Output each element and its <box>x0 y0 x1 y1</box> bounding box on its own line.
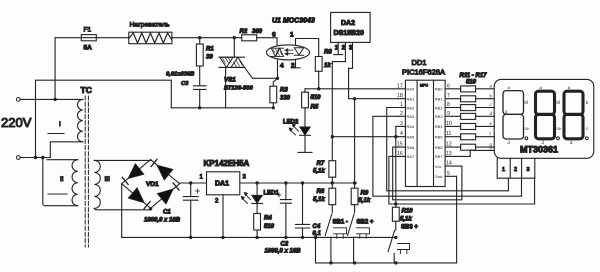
wire top main <box>55 37 277 39</box>
led triangle <box>294 48 303 55</box>
svg-text:II: II <box>60 176 64 183</box>
display pin cells <box>497 158 535 178</box>
fuse F1 <box>81 27 96 52</box>
wire RA6 to Vcc link <box>393 147 462 200</box>
svg-text:C1: C1 <box>163 210 171 216</box>
node MCLR junction <box>394 135 397 138</box>
ground bar pin2 <box>291 67 300 69</box>
svg-text:RB1: RB1 <box>435 97 444 102</box>
svg-text:R10: R10 <box>402 209 414 215</box>
wire terminal2 <box>20 157 50 159</box>
wire RA4 elbow <box>396 126 399 136</box>
svg-text:f: f <box>490 131 492 136</box>
svg-text:5,1k: 5,1k <box>313 197 325 203</box>
wires resistors to display <box>476 89 495 147</box>
diode top-right <box>157 165 173 180</box>
svg-text:220V: 220V <box>1 115 32 130</box>
node C4 bottom <box>301 236 304 239</box>
svg-text:a: a <box>508 85 511 90</box>
resistor R3 <box>270 78 291 108</box>
svg-text:RB7: RB7 <box>435 154 444 159</box>
PIC right pin numbers <box>446 83 452 177</box>
wire h row <box>470 150 494 156</box>
svg-text:2: 2 <box>215 199 219 205</box>
svg-text:MPU: MPU <box>420 84 428 88</box>
capacitor C1 <box>183 183 199 237</box>
svg-text:R4: R4 <box>264 216 272 222</box>
svg-text:ce: ce <box>557 126 562 131</box>
svg-text:2: 2 <box>291 63 295 70</box>
svg-text:F1: F1 <box>84 27 92 34</box>
svg-text:d: d <box>570 140 573 145</box>
triac VS1 <box>219 57 277 108</box>
node SB3 bus <box>394 261 397 264</box>
svg-text:I: I <box>59 121 61 128</box>
svg-text:0,1: 0,1 <box>313 231 322 237</box>
svg-text:b: b <box>586 100 589 105</box>
svg-text:11: 11 <box>446 131 451 137</box>
svg-text:RB2: RB2 <box>435 105 444 110</box>
node bus link <box>314 236 317 239</box>
svg-text:MT30361: MT30361 <box>520 145 558 155</box>
svg-text:TC: TC <box>81 85 92 95</box>
svg-text:1k: 1k <box>324 63 331 69</box>
svg-text:VD1: VD1 <box>146 181 159 188</box>
svg-text:330: 330 <box>280 96 291 102</box>
svg-text:БТ136-500: БТ136-500 <box>224 86 253 92</box>
svg-text:5: 5 <box>447 171 450 177</box>
wire RA1 row <box>349 68 399 98</box>
svg-text:9: 9 <box>447 111 450 117</box>
wire opto pin1 <box>296 39 319 57</box>
node riser top <box>353 97 356 100</box>
resistors R11-R17 <box>460 73 488 150</box>
winding III <box>94 160 110 208</box>
wire RA7 to display pin3 <box>389 156 535 204</box>
capacitor C4 <box>296 183 322 237</box>
svg-text:h: h <box>490 145 493 150</box>
wire opto pin4 <box>277 60 279 79</box>
wire RA0 row <box>305 88 398 90</box>
svg-text:5A: 5A <box>84 45 93 52</box>
svg-text:R7: R7 <box>317 161 325 167</box>
capacitor C3 <box>166 72 206 108</box>
svg-text:SB3 +: SB3 + <box>401 225 418 231</box>
svg-text:RA2: RA2 <box>407 105 416 110</box>
resistor R2 <box>240 29 263 41</box>
node C1 top <box>189 181 192 184</box>
svg-text:bf: bf <box>557 100 561 105</box>
resistor R4 <box>254 214 275 238</box>
node DA1 gnd <box>221 236 224 239</box>
svg-text:C2: C2 <box>281 242 289 248</box>
button SB2 <box>348 214 374 263</box>
node R6 bottom <box>317 87 320 90</box>
svg-text:DD1: DD1 <box>412 58 427 67</box>
svg-text:KP142EH5A: KP142EH5A <box>204 159 250 168</box>
resistor R6 <box>315 50 332 89</box>
digit 2 <box>536 85 562 145</box>
svg-text:d: d <box>490 111 493 116</box>
svg-text:R9: R9 <box>361 191 369 197</box>
sensor DA2 DS18B20 <box>331 12 371 68</box>
svg-text:3: 3 <box>400 121 403 127</box>
svg-text:C3: C3 <box>181 81 189 87</box>
svg-text:RB6: RB6 <box>435 145 444 150</box>
svg-text:R2: R2 <box>240 29 248 35</box>
svg-text:1: 1 <box>290 32 294 39</box>
PIC right pin stubs <box>445 89 470 177</box>
svg-text:c: c <box>586 126 588 131</box>
LED1 <box>241 183 280 214</box>
button SB1 <box>325 214 348 263</box>
winding II top spare lead <box>47 159 78 161</box>
wire MCLR to R10 <box>395 137 397 204</box>
svg-text:a: a <box>490 84 493 89</box>
digit 1 <box>503 85 530 145</box>
svg-text:RA3: RA3 <box>407 114 416 119</box>
resistor R7 <box>313 161 336 183</box>
node winding II neutral <box>41 156 44 159</box>
svg-text:RB3: RB3 <box>435 114 444 119</box>
wire +5 riser <box>354 99 356 183</box>
regulator DA1 <box>200 159 250 237</box>
svg-text:2: 2 <box>514 167 517 173</box>
resistor R1 <box>196 38 214 85</box>
wire RA3 to display pin2 <box>373 116 522 196</box>
svg-text:6: 6 <box>272 32 276 39</box>
digit 3 <box>564 85 589 145</box>
svg-text:R1: R1 <box>206 47 214 53</box>
svg-text:R11 - R17: R11 - R17 <box>460 73 488 79</box>
svg-text:17: 17 <box>397 83 403 89</box>
svg-text:RA1: RA1 <box>407 97 416 102</box>
wire RA2 to display pin1 <box>387 108 509 191</box>
node C2 bottom <box>284 236 287 239</box>
resistor R9 <box>351 183 371 213</box>
svg-text:RA5: RA5 <box>407 135 416 140</box>
MCU DD1 PIC16F628A <box>402 58 445 187</box>
winding II tap stub <box>48 193 67 195</box>
wire Gnd pin5 down <box>456 176 458 263</box>
svg-text:1: 1 <box>200 175 204 181</box>
node junction terminal1/primary <box>53 98 56 101</box>
wire DS pin3 jog <box>349 67 353 69</box>
node R9 top rail <box>353 181 356 184</box>
node C2 top <box>284 181 287 184</box>
bridge VD1 <box>122 159 180 208</box>
svg-text:12: 12 <box>446 142 452 148</box>
resistor R10 <box>392 204 413 230</box>
svg-text:360: 360 <box>252 29 263 35</box>
resistor R5 <box>302 89 322 111</box>
svg-text:5,1k: 5,1k <box>359 198 371 204</box>
winding I tap stub <box>48 133 64 135</box>
svg-text:39: 39 <box>206 55 213 61</box>
resistor R8 <box>313 183 336 213</box>
svg-text:b: b <box>490 93 493 98</box>
wire DQ junction to RA5 <box>332 136 398 138</box>
wire snubber bottom <box>171 107 273 109</box>
ground bus main <box>122 236 396 238</box>
svg-text:RA0: RA0 <box>407 87 416 92</box>
svg-text:510: 510 <box>466 80 477 86</box>
node triac top <box>233 36 236 39</box>
PIC RA labels <box>407 87 416 160</box>
svg-text:510: 510 <box>264 224 275 230</box>
node junction terminal2/snubber return <box>34 156 37 159</box>
node SB1 bus <box>329 261 332 264</box>
svg-text:1: 1 <box>400 102 403 108</box>
wire opto pin6 <box>276 38 278 46</box>
svg-text:DA2: DA2 <box>341 20 355 27</box>
LED2 <box>283 108 310 153</box>
wire winding III bottom to bridge bottom <box>94 208 150 210</box>
svg-text:1000,0 х 16В: 1000,0 х 16В <box>265 249 302 255</box>
svg-text:c: c <box>490 102 492 107</box>
svg-text:LED1: LED1 <box>264 191 280 197</box>
svg-text:3: 3 <box>243 175 247 181</box>
svg-text:1: 1 <box>502 167 505 173</box>
svg-text:VS1: VS1 <box>224 77 236 84</box>
svg-text:R6: R6 <box>324 50 332 56</box>
svg-text:d: d <box>508 140 511 145</box>
wire bridge plus to DA1 <box>180 182 207 184</box>
node DQ to PIC <box>331 135 334 138</box>
svg-text:10: 10 <box>446 121 452 127</box>
PIC left pin numbers <box>397 83 403 157</box>
svg-text:Vcc: Vcc <box>435 164 442 169</box>
svg-text:RA7: RA7 <box>407 154 416 159</box>
node C3 bottom <box>198 106 201 109</box>
svg-text:8: 8 <box>447 102 450 108</box>
svg-text:R5: R5 <box>311 105 319 111</box>
svg-text:R8: R8 <box>317 189 325 195</box>
heater element <box>129 22 172 44</box>
node gate/R3 <box>276 77 279 80</box>
display MT30361 <box>494 79 594 158</box>
svg-text:13: 13 <box>446 151 452 157</box>
svg-text:1000,0 х 16В: 1000,0 х 16В <box>144 218 181 224</box>
svg-text:SB1 -: SB1 - <box>333 220 348 226</box>
svg-text:Gnd: Gnd <box>435 174 443 179</box>
wire left vertical from top to terminal1 <box>54 38 56 100</box>
winding I <box>20 99 83 141</box>
node R1 top <box>198 36 201 39</box>
terminal input 1 <box>16 98 20 102</box>
svg-text:RB5: RB5 <box>435 135 444 140</box>
svg-text:ce: ce <box>525 126 530 131</box>
diode bottom-left <box>128 188 144 203</box>
svg-text:e: e <box>490 121 493 126</box>
svg-text:III: III <box>105 176 111 183</box>
node C1 bottom <box>189 236 192 239</box>
svg-text:14: 14 <box>446 161 452 167</box>
svg-text:18: 18 <box>397 93 403 99</box>
svg-text:U1 MOC3043: U1 MOC3043 <box>272 18 315 25</box>
wire winding I bottom to terminal2 <box>50 142 83 158</box>
wire snubber return riser <box>36 80 172 157</box>
node R4 bottom <box>255 236 258 239</box>
svg-text:DS18B20: DS18B20 <box>334 30 364 37</box>
PIC RB labels <box>435 87 444 180</box>
node bridge bottom <box>149 207 152 210</box>
svg-text:4: 4 <box>400 131 403 137</box>
wire winding III top to bridge <box>94 159 150 162</box>
svg-text:LED2: LED2 <box>283 120 299 126</box>
optocoupler U1 MOC3043 <box>266 18 315 60</box>
segment letters <box>490 84 493 151</box>
wire triac top lead <box>233 38 235 58</box>
svg-text:510: 510 <box>311 95 322 101</box>
ground bar LED2 <box>298 151 312 153</box>
wire winding II bottom to terminal2 line <box>43 158 78 206</box>
led arrows <box>287 50 294 54</box>
svg-text:R3: R3 <box>280 88 288 94</box>
phototriac triangles <box>271 48 284 56</box>
node R7 bottom rail <box>331 181 334 184</box>
svg-text:g: g <box>505 109 508 114</box>
svg-text:Нагреватель: Нагреватель <box>130 22 170 29</box>
capacitor C2 <box>265 183 302 255</box>
node R3 bottom <box>272 106 275 109</box>
svg-text:3: 3 <box>527 167 530 173</box>
svg-text:5,1k: 5,1k <box>400 217 412 223</box>
transformer core <box>85 96 88 247</box>
svg-text:a: a <box>568 85 571 90</box>
svg-text:2: 2 <box>400 111 403 117</box>
svg-text:7: 7 <box>447 93 450 99</box>
node C4 top <box>301 181 304 184</box>
svg-text:6: 6 <box>447 83 450 89</box>
svg-text:C4: C4 <box>313 224 321 230</box>
diode bottom-right <box>157 189 173 204</box>
svg-text:DA1: DA1 <box>215 181 229 188</box>
wire button ground bus <box>316 237 457 263</box>
diode top-left <box>128 164 144 179</box>
wire +5 rail <box>240 182 357 184</box>
node R10 bus <box>394 236 397 239</box>
wire opto pin2 to ground bar <box>295 60 297 68</box>
svg-text:RB0: RB0 <box>435 87 444 92</box>
node LED1 top <box>255 181 258 184</box>
svg-text:bf: bf <box>525 100 529 105</box>
svg-text:0,01х630В: 0,01х630В <box>166 72 194 78</box>
ground bar DS pin1 <box>334 54 343 56</box>
svg-text:PIC16F628A: PIC16F628A <box>402 68 445 77</box>
svg-text:RA4: RA4 <box>407 124 416 129</box>
svg-text:a: a <box>540 85 543 90</box>
wire DS pin2 DQ <box>332 62 345 161</box>
winding II <box>60 160 78 206</box>
node SB2 bus <box>353 261 356 264</box>
terminal input 2 <box>16 156 20 160</box>
svg-text:5,1k: 5,1k <box>313 169 325 175</box>
svg-text:RB4: RB4 <box>435 124 444 129</box>
wire bridge minus to ground bus <box>121 184 123 238</box>
svg-text:4: 4 <box>280 63 284 70</box>
svg-text:SB2 +: SB2 + <box>357 220 374 226</box>
svg-text:RA6: RA6 <box>407 145 416 150</box>
PIC left pin stubs <box>398 89 405 157</box>
node R10 top junction <box>394 202 397 205</box>
button SB3 <box>388 225 418 263</box>
